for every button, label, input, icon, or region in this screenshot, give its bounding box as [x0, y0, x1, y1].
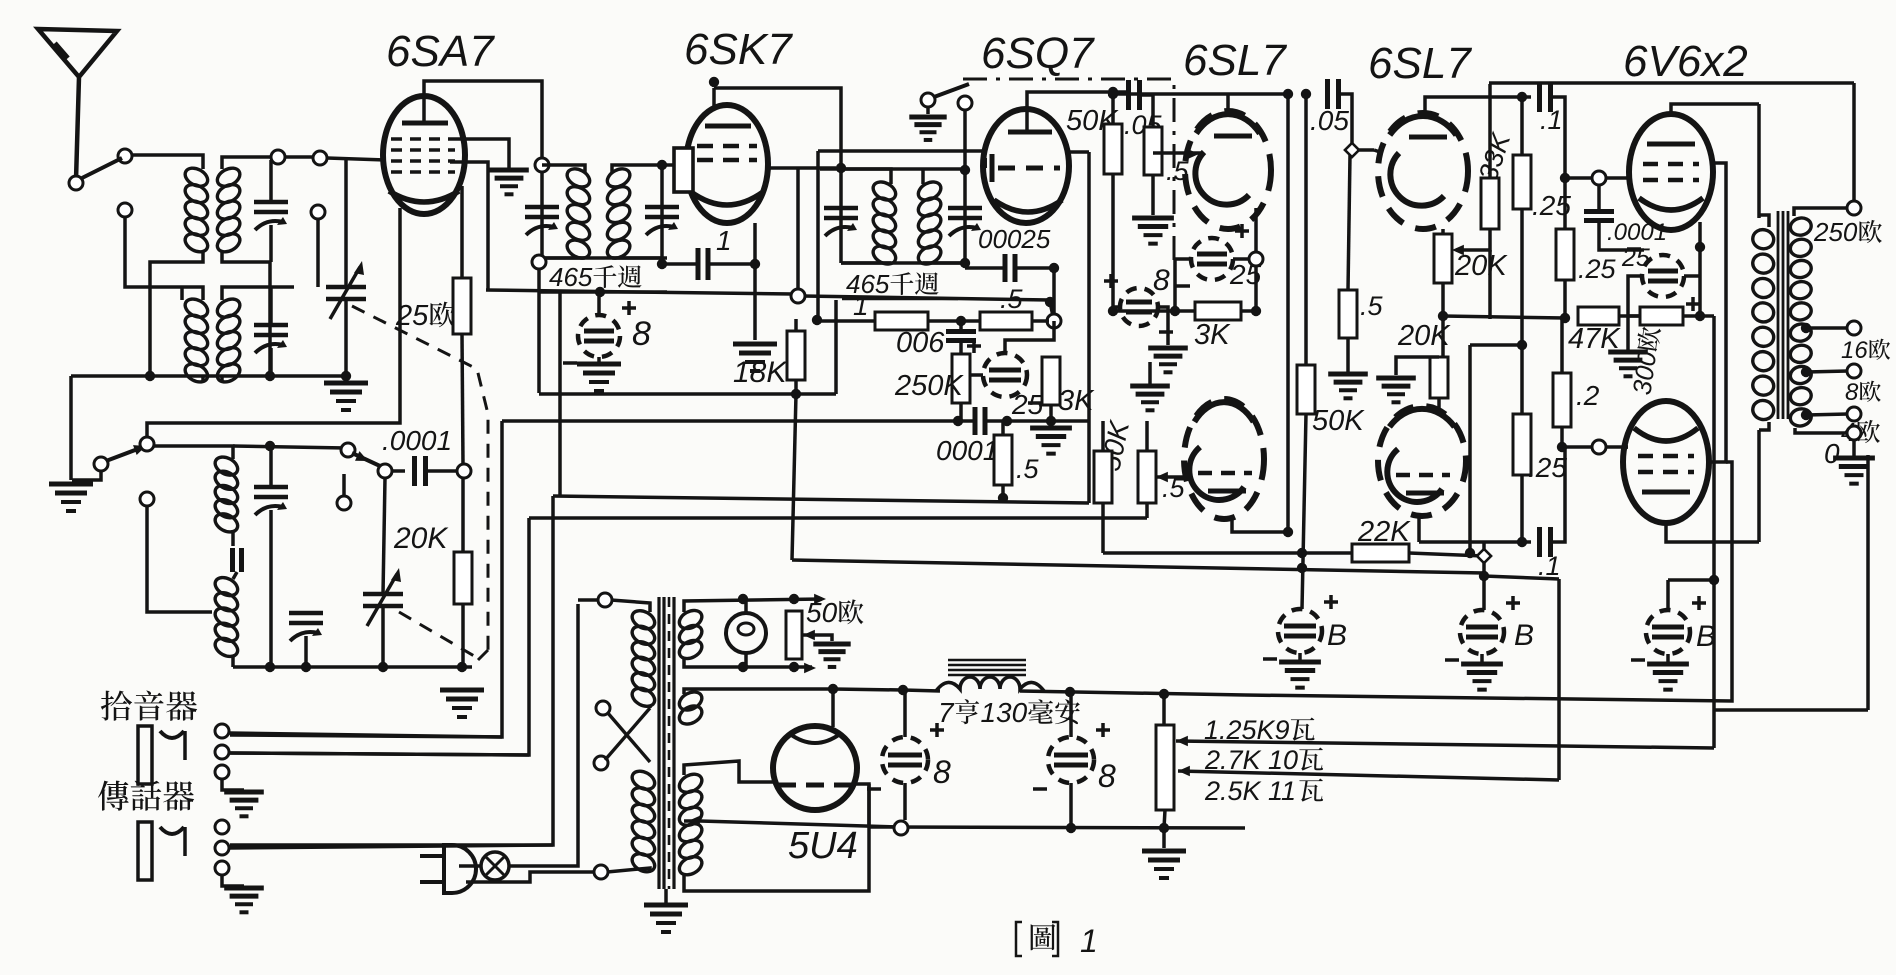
IF1 primary bottom lead [542, 256, 585, 260]
tube 6SQ7 [983, 109, 1069, 223]
osc cap to node [428, 469, 460, 473]
node bus3 [998, 493, 1008, 503]
mute switch contact2 [958, 96, 972, 110]
ground 8uF 6SL7 [1166, 348, 1169, 350]
svg-text:465: 465 [549, 262, 593, 292]
label underline IF1 [545, 291, 658, 294]
resistor 50 ohm hum [786, 611, 802, 659]
C5 top lead [269, 446, 273, 487]
ground 6SL7b [1394, 378, 1397, 380]
rail to .1 cap [1522, 95, 1531, 99]
electrolytic 25uF 6SL7 [1191, 238, 1233, 280]
resistor 47K [1578, 307, 1619, 325]
B3 bottom lead [1666, 654, 1670, 662]
wire L2 prim top [182, 287, 203, 300]
electrolytic B cap 1 [1278, 609, 1322, 653]
IF1 bottom terminal [532, 255, 546, 269]
resistor 1 meg [875, 312, 928, 330]
terminal PU link [118, 203, 132, 217]
IF1 sec top lead [612, 165, 662, 172]
grid b wire2 [1606, 445, 1628, 449]
node bus5 B1x [1297, 563, 1307, 573]
resistor .25 a [1513, 155, 1531, 209]
capacitor .006 [946, 329, 976, 334]
C5 bottom lead [269, 510, 273, 667]
.5det bottom lead [1001, 485, 1005, 498]
resistor 250K [952, 354, 970, 403]
bus y421 corner [230, 421, 502, 737]
tap16 wire [1806, 326, 1848, 330]
choke core [948, 659, 1026, 662]
B rail drop [1852, 83, 1856, 201]
svg-text:25: 25 [1621, 244, 1650, 272]
.00025 right lead [1016, 266, 1054, 270]
20K top lead [461, 478, 465, 552]
20K pot bottom [1441, 283, 1445, 357]
node .25a [1517, 340, 1527, 350]
svg-text:20K: 20K [393, 522, 449, 555]
25uF left lead [969, 373, 983, 377]
node 6V6 grid b [1557, 442, 1567, 452]
node cathode 6SL7 [1249, 252, 1263, 266]
svg-text:16: 16 [1841, 337, 1868, 364]
6SA7 osc grid wire [147, 208, 400, 450]
V5b plate lead [1417, 516, 1421, 542]
capacitor .0001 hf [1584, 209, 1614, 214]
ground .5 V5a [1346, 374, 1349, 376]
.1 right lead [1551, 97, 1565, 178]
.006 top lead [959, 321, 963, 331]
C3 top lead [344, 158, 348, 287]
terminal 4ohm [1847, 407, 1861, 421]
ground 6SA7 screen [507, 170, 510, 172]
padder capacitor [230, 548, 235, 572]
microphone jack [138, 822, 152, 880]
node plate wire [709, 77, 719, 87]
heater arrow bottom [804, 663, 816, 674]
B line y292 [486, 290, 793, 294]
primary upper top [611, 600, 650, 612]
pickup sleeve terminal [215, 765, 229, 779]
resistor 3K 6SL7 [1195, 302, 1241, 320]
node screen avc [791, 289, 805, 303]
output transformer core [1777, 211, 1780, 419]
terminal stub [316, 219, 320, 287]
bus y497 [553, 496, 1089, 503]
IF1 sec to 6SK7 grid [662, 163, 676, 167]
bus y394 right up [834, 300, 838, 394]
V4b grid wire [1185, 475, 1190, 479]
osc trimmer C5 [254, 485, 288, 490]
33K to bias line [1488, 250, 1492, 319]
mute contact2 down [963, 110, 967, 168]
osc tuning capacitor C7 (gang) [363, 592, 403, 597]
tap8 wire [1806, 371, 1848, 372]
resistor 33K [1481, 178, 1499, 229]
center tap wire [700, 821, 899, 827]
3K right wire [1241, 309, 1256, 313]
tap 4 [1801, 410, 1811, 420]
node rail a [1108, 89, 1118, 99]
terminal 0 [1847, 426, 1861, 440]
core ground lead [664, 889, 668, 903]
IF2 secondary trimmer [948, 206, 982, 211]
junction [145, 371, 155, 381]
primary lower bottom [607, 868, 650, 872]
wire L1 sec top [222, 157, 274, 169]
terminal stub [342, 474, 346, 496]
6V6a plate lead [1671, 104, 1759, 114]
electrolytic 25uF 6SQ7 [983, 353, 1027, 397]
6SA7 screen wire [455, 139, 509, 168]
IF1 sec bottom lead [612, 256, 662, 260]
band switch S1a pivot [118, 149, 132, 163]
node B line [595, 287, 605, 297]
osc switch arm [106, 447, 143, 461]
resistor 18K [787, 331, 805, 380]
tube 6SL7 V5 upper triode [1378, 113, 1468, 229]
svg-text:.5: .5 [1162, 473, 1186, 503]
ground RF bus [344, 383, 347, 385]
lamp top lead [744, 599, 748, 613]
avc node down [1052, 268, 1056, 321]
svg-text:3K: 3K [1058, 385, 1095, 417]
47K right lead [1619, 314, 1640, 318]
node heater b [789, 594, 799, 604]
label underline IF2 [842, 298, 958, 301]
resistor .25 b [1513, 414, 1531, 475]
capacitor .0001 det [973, 407, 978, 435]
capacitor .05 coupling [1126, 80, 1131, 110]
6V6b grid wire [1623, 445, 1628, 449]
gang linkage dashed line [352, 306, 488, 660]
mic tip terminal [215, 820, 229, 834]
tap1 rail [1176, 741, 1714, 748]
svg-text:.05: .05 [1310, 105, 1349, 136]
trimmer C1 [254, 200, 288, 205]
svg-text:1: 1 [716, 225, 732, 256]
wire L2 sec top [222, 287, 294, 300]
B1 bottom lead [1298, 653, 1302, 660]
5U4 filament arc [790, 734, 840, 743]
x1089 vertical [1087, 152, 1091, 503]
1meg left lead [817, 319, 875, 323]
electrolytic B cap 2 [1460, 610, 1504, 654]
mute switch arm [934, 84, 969, 97]
trimmer C1 top lead [269, 160, 273, 202]
33K bottom lead [1456, 229, 1490, 250]
bus y421 right [986, 419, 1089, 423]
25uF 6V6 right lead [1684, 274, 1700, 278]
junction [457, 662, 467, 672]
svg-text:6SK7: 6SK7 [684, 25, 793, 74]
electrolytic filter 8uF b [1048, 737, 1094, 783]
tuning capacitor C3 (gang) [326, 285, 366, 290]
svg-text:8: 8 [632, 315, 651, 353]
x1558 vertical [1557, 579, 1561, 780]
band switch S1a arm [82, 158, 122, 178]
0 to ground [1852, 440, 1856, 456]
panel lamp [481, 852, 509, 880]
bus y497 corner down [230, 496, 553, 845]
capacitor .1 coupling [1537, 82, 1542, 112]
C3 bottom lead [344, 299, 348, 376]
250K bottom lead [959, 403, 963, 421]
svg-text:8: 8 [1153, 264, 1170, 297]
power plug [420, 845, 476, 893]
return riser x1868 [1866, 455, 1870, 710]
svg-text:0: 0 [1824, 438, 1840, 469]
20K bottom lead [461, 604, 465, 667]
IF2 bottom rail [841, 261, 965, 265]
IF2 primary top lead [841, 169, 891, 184]
8uF ground lead [1158, 307, 1168, 345]
pickup sleeve ground [222, 779, 244, 790]
ground wire 20K [1396, 357, 1439, 375]
resistor .5 volume pot [1138, 451, 1156, 503]
node 300ohm right [1695, 311, 1705, 321]
y577 link [1484, 576, 1559, 579]
wire L1 sec top to switch S1b [285, 155, 316, 159]
heater top lead [684, 599, 822, 612]
25uF 6V6 left lead [1628, 276, 1642, 300]
plug to lamp wire [459, 864, 481, 868]
.05 right lead [1140, 95, 1153, 127]
IF2 left lead [839, 169, 843, 263]
filter a top [903, 690, 907, 737]
B2 bottom lead [1480, 654, 1484, 662]
bus y518 [529, 516, 1147, 520]
25ohm bottom lead [462, 334, 463, 464]
svg-text:1: 1 [1080, 923, 1098, 959]
node cathode 6V6 [1695, 242, 1705, 252]
electrolytic filter 8uF a [882, 737, 928, 783]
tube 6SL7 V4 lower triode [1184, 399, 1264, 519]
8uF bottom lead [597, 357, 601, 364]
fuse-switch cross [607, 712, 650, 762]
return rail y710 [1713, 708, 1868, 712]
plate wire to IF2 [714, 88, 841, 164]
osc top rail [233, 446, 346, 448]
node 22K rail B1 [1297, 548, 1307, 558]
primary top wire [578, 598, 598, 602]
IF1 right lead [660, 165, 664, 258]
L3 bottom jog [231, 530, 235, 546]
mic tip wire [229, 845, 553, 848]
antenna terminal [69, 176, 83, 190]
node diamond 22K [1477, 549, 1491, 563]
antenna [38, 29, 117, 180]
6SQ7 plate lead [1027, 92, 1108, 132]
bleeder top lead [1162, 694, 1166, 725]
node V4b plate [1283, 527, 1293, 537]
IF1 primary top lead [542, 165, 585, 172]
svg-text:B: B [1327, 619, 1347, 652]
RF section ground bus [71, 374, 346, 378]
svg-text:6V6x2: 6V6x2 [1623, 37, 1748, 86]
ground mic [242, 888, 245, 890]
switch contact to ground [72, 471, 101, 480]
tap 8 [1801, 367, 1811, 377]
wire ant switch to coil L1 top [131, 155, 203, 169]
C7 top lead [383, 478, 385, 594]
primary upper bottom [648, 705, 652, 706]
wire L1 sec bottom [222, 251, 270, 376]
node IF1 sec top [657, 160, 667, 170]
svg-text:130: 130 [980, 697, 1027, 728]
ground bleeder [1162, 851, 1165, 853]
oscillator grid capacitor .0001 [412, 456, 417, 486]
ground 8uF IF1 [597, 364, 600, 366]
electrolytic 25uF 6V6 [1642, 255, 1684, 297]
top rail 6SL7 [1108, 92, 1288, 96]
V4a plate lead [1226, 94, 1230, 111]
node x1484 [1479, 571, 1489, 581]
bleeder bottom lead [1164, 810, 1165, 848]
wire L2 sec bottom [220, 376, 224, 381]
svg-text:8: 8 [933, 754, 951, 790]
1meg right lead [928, 319, 961, 323]
resistor 22K [1352, 544, 1409, 562]
label figure [1031, 924, 1056, 950]
ground transformer core [664, 905, 667, 907]
capacitor .1 6SK7 cathode [696, 248, 701, 280]
50K bottom lead [1111, 174, 1115, 311]
svg-text:1: 1 [853, 290, 869, 321]
V5b plate rail [1419, 540, 1531, 544]
switch links [648, 705, 652, 708]
resistor 20K feedback pot [1434, 234, 1452, 283]
node bleeder top [1159, 689, 1169, 699]
node grid a circle [1592, 171, 1606, 185]
svg-text:.25: .25 [1578, 254, 1617, 284]
node .00025 [1049, 263, 1059, 273]
cap .1 right lead [709, 262, 755, 266]
resistor 20K second [1430, 357, 1448, 398]
y152 wire right [1069, 150, 1089, 154]
panel pilot lamp [726, 613, 766, 653]
bus5 long [792, 560, 1484, 573]
wire L2 link [180, 287, 184, 300]
junction [341, 371, 351, 381]
6V6b plate rise [1757, 430, 1761, 542]
IF2 sec top lead [921, 169, 925, 184]
bleeder tap1 arrow [1176, 736, 1188, 747]
resistor 50K V4b plate load [1297, 365, 1315, 414]
svg-text:.5: .5 [1016, 454, 1040, 484]
50K top lead [1111, 92, 1115, 124]
wire S1b to 6SA7 grid [327, 158, 384, 160]
wire from terminal down [125, 217, 182, 287]
IF2 right lead [963, 169, 967, 263]
ground bus left end [894, 821, 908, 835]
ground B3 [1666, 664, 1669, 666]
ground bus bottom [869, 827, 1245, 828]
resistor .5 grid [1144, 127, 1162, 175]
lamp bottom lead [744, 653, 748, 667]
oscillator coil L3 [212, 453, 241, 478]
electrolytic 8uF IF1 [578, 315, 620, 357]
.0001 top lead [1597, 185, 1601, 211]
svg-text:2.5K 11: 2.5K 11 [1204, 776, 1296, 806]
diamond to plate rail [1482, 542, 1486, 551]
node heater d [789, 662, 799, 672]
primary bottom lead [1759, 422, 1769, 430]
pickup tip terminal [215, 724, 229, 738]
.25c bottom [1563, 280, 1567, 318]
junction [265, 371, 275, 381]
node IF1 right [657, 259, 667, 269]
ground B1 [1298, 662, 1301, 664]
mic ring terminal [215, 841, 229, 855]
V4a grid from .5 [1196, 151, 1203, 155]
label pickup [101, 691, 132, 721]
svg-text:250K: 250K [894, 370, 964, 402]
svg-text:300: 300 [1626, 349, 1662, 397]
.006 bottom lead [959, 341, 963, 354]
terminal 250ohm [1847, 201, 1861, 215]
.25a bottom lead [1520, 209, 1524, 542]
33K top lead [1488, 84, 1492, 178]
HV top lead [684, 761, 775, 782]
grid b wire [1562, 445, 1593, 449]
dash-dot box 6SQ7 [963, 79, 1174, 268]
mic sleeve terminal [215, 861, 229, 875]
sec bottom lead [1795, 428, 1848, 433]
osc coil top lead [150, 446, 233, 459]
resistor 50K avc [1094, 451, 1112, 503]
ground .5 [1151, 218, 1154, 220]
capacitor .1 coupling lower [1537, 527, 1542, 557]
gang linkage arrow [478, 650, 488, 660]
svg-text:0001: 0001 [936, 435, 998, 466]
pickup ring wire [229, 753, 529, 755]
wiper wire [1156, 475, 1185, 479]
L4 bottom [231, 655, 235, 667]
svg-text:.5: .5 [1360, 291, 1384, 321]
bus5 vertical from 18K [792, 394, 796, 560]
22K rail [1103, 551, 1352, 555]
tap4 wire [1806, 414, 1848, 415]
.1b right lead [1551, 447, 1565, 542]
switch2 arrowhead [355, 451, 368, 461]
V4b plate lead [1232, 519, 1288, 532]
power transformer core [657, 597, 660, 889]
B+ rail right [1245, 580, 1732, 701]
node .25a2 [1517, 537, 1527, 547]
grid a wire [1565, 176, 1593, 180]
50K V4b top lead [1304, 94, 1308, 365]
svg-text:50: 50 [806, 597, 838, 628]
node IF2 sec top [960, 165, 970, 175]
mains wire 2 [466, 872, 601, 882]
svg-text:006: 006 [896, 327, 945, 359]
.2 bottom lead [1560, 427, 1564, 447]
HV secondary winding [676, 771, 705, 796]
antenna coil L1 secondary [214, 165, 243, 190]
ground speaker [1852, 458, 1855, 460]
svg-text:.0001: .0001 [382, 425, 452, 456]
output transformer primary [1751, 228, 1775, 251]
IF2 sec bottom lead [923, 261, 965, 265]
secondary top lead [1794, 208, 1848, 216]
pickup ring terminal [215, 745, 229, 759]
wiper to ground [803, 635, 832, 641]
node IF1 primary top [535, 158, 549, 172]
heater bottom lead [684, 657, 812, 667]
C7 bottom lead [381, 606, 385, 667]
choke left wire [903, 690, 940, 691]
